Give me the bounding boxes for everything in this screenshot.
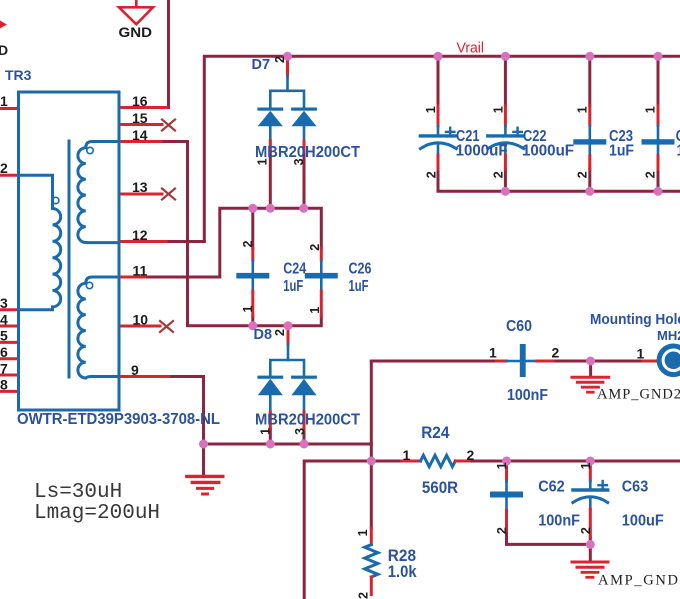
pin TR3-15 [119,123,162,126]
wire pin14 net [161,142,321,326]
capacitor C25 partial right edge [642,106,675,169]
pin TR3-16 [119,106,167,109]
no-connect X pin13 [162,189,175,200]
svg-text:12: 12 [132,227,148,243]
GND power symbol top [119,0,153,24]
svg-text:2: 2 [576,171,590,178]
svg-text:3: 3 [293,428,307,435]
pin TR3-5 [0,341,19,344]
svg-text:11: 11 [133,263,148,279]
svg-text:2: 2 [644,171,658,178]
wire C24 vertical maroon bottom [251,316,254,326]
svg-text:2: 2 [467,447,475,463]
svg-text:1: 1 [0,93,8,109]
svg-text:TR3: TR3 [5,67,32,83]
svg-text:1: 1 [308,307,322,314]
diode D8 dual common cathode [257,344,317,429]
junction D7 anode 3 top rail [299,204,308,213]
wire pin16 to top edge [167,0,170,108]
wire C21 vertical maroon [437,56,440,106]
svg-text:6: 6 [0,344,8,360]
svg-text:8: 8 [0,377,8,393]
capacitor C62 [490,461,523,531]
svg-text:1: 1 [403,447,411,463]
no-connect X pin10 [160,321,173,332]
wire D7 anode right drop [303,152,306,209]
svg-text:2: 2 [273,329,287,336]
junction C22 bottom rail [501,187,510,196]
pin TR3-12 [119,240,166,243]
svg-text:1: 1 [579,462,593,469]
svg-text:C63: C63 [622,479,648,496]
wire C25 vertical maroon [657,56,660,106]
svg-text:2: 2 [424,171,438,178]
svg-text:1: 1 [259,428,273,435]
diode D7 dual common cathode [257,60,317,152]
wire pin12 to Vrail riser [166,240,204,243]
capacitor C24 [236,248,269,316]
wire pin11 to C24 top rail [145,208,321,277]
svg-text:GND: GND [119,24,153,40]
wire cap bank bottom rail [438,169,680,191]
wire R28 upper [370,461,373,528]
wire C63 bottom stub [589,537,592,560]
svg-text:C60: C60 [506,318,532,335]
junction D8 anode 1 ground rail [266,440,275,449]
junction AMP_GND2 tap [586,357,595,366]
junction C24 bottom rail [248,321,257,330]
wire D8 anode left drop [269,429,272,444]
svg-text:Ls=30uH: Ls=30uH [34,481,122,504]
svg-text:2: 2 [552,345,560,361]
svg-text:2: 2 [273,56,287,63]
wire C22 bottom maroon [504,169,507,191]
svg-text:1uF: 1uF [609,143,634,160]
no-connect X pin15 [162,120,175,131]
wire Vrail horizontal rail [204,56,680,241]
wire C60 to MH dot [553,360,643,363]
svg-text:10: 10 [133,312,149,328]
transformer core line [68,141,71,377]
transformer secondary 1 polarity dot [87,147,93,153]
svg-text:1uF: 1uF [349,278,369,295]
svg-text:MBR20H200CT: MBR20H200CT [255,144,360,161]
junction C25 bottom rail [654,187,663,196]
junction R28 tap [367,457,376,466]
capacitor C22 polarized [488,106,524,169]
wire R24 to C62 [469,460,680,463]
svg-text:2: 2 [495,527,509,534]
svg-text:5: 5 [0,328,8,344]
svg-text:1uF: 1uF [677,143,680,160]
svg-text:MH2: MH2 [657,328,680,343]
junction C23 bottom rail [585,187,594,196]
svg-text:1: 1 [241,306,255,313]
capacitor C23 [573,106,606,169]
svg-text:D8: D8 [254,327,273,343]
capacitor C63 polarized [573,461,608,537]
capacitor C26 [305,248,338,316]
svg-text:Mounting Hole: Mounting Hole [590,312,680,328]
wire C22 vertical maroon [504,56,507,106]
transformer secondary 2 winding [78,277,119,378]
junction C63 top [586,457,595,466]
junction D7 anode 1 top rail [266,204,275,213]
svg-text:1: 1 [637,345,645,361]
svg-text:2: 2 [357,592,371,599]
junction C22 on Vrail [501,52,510,61]
ground symbol below D8 [187,476,223,494]
wire pin9 to ground rail [169,377,371,462]
svg-text:16: 16 [132,93,148,109]
svg-text:Lmag=200uH: Lmag=200uH [34,502,160,525]
pin TR3-6 [0,357,19,360]
ground symbol AMP_GND [572,562,608,577]
svg-text:1: 1 [576,106,590,113]
svg-text:2: 2 [492,171,506,178]
svg-text:2: 2 [0,160,8,176]
svg-text:OWTR-ETD39P3903-3708-NL: OWTR-ETD39P3903-3708-NL [17,411,220,428]
transformer secondary 2 polarity dot [86,282,92,288]
svg-text:9: 9 [131,362,139,378]
junction C24 top rail [248,204,257,213]
pin TR3-2 [0,174,19,177]
svg-text:1: 1 [495,462,509,469]
svg-text:1: 1 [492,106,506,113]
transformer TR3 body [19,92,120,410]
mounting hole MH pad [643,346,680,375]
pin TR3-10 [119,325,160,328]
wire D8 center stub red [287,326,290,344]
wire C23 vertical maroon [588,56,591,106]
wire ground drop below rail [202,444,205,475]
svg-text:MBR20H200CT: MBR20H200CT [255,412,360,429]
pin TR3-14 [119,140,161,143]
ground symbol AMP_GND2 [572,377,609,392]
junction ground rail left [199,440,208,449]
svg-text:C26: C26 [349,261,372,278]
pin TR3-7 [0,374,19,377]
svg-text:2: 2 [308,244,322,251]
svg-text:1.0k: 1.0k [388,563,418,581]
transformer primary polarity dot [53,197,59,203]
svg-text:1: 1 [356,529,370,536]
svg-text:13: 13 [132,179,148,195]
svg-text:1000uF: 1000uF [522,143,574,160]
wire AMP_GND2 drop [589,361,592,376]
svg-text:100uF: 100uF [622,512,664,529]
svg-text:2: 2 [579,527,593,534]
capacitor C60 series horizontal [497,344,554,377]
wire C25 bottom maroon [657,169,660,191]
wire D7 anode left drop [269,152,272,209]
junction C23 on Vrail [585,52,594,61]
svg-text:D7: D7 [252,57,271,73]
junction D8 cathode tap bottom rail [284,321,293,330]
junction D8 anode 3 ground rail [300,440,309,449]
wire mounting hole net [371,360,496,363]
svg-text:100nF: 100nF [507,387,548,404]
transformer secondary 1 winding [78,142,119,243]
wire riser to mounting-hole row [370,361,373,444]
svg-text:1000uF: 1000uF [456,143,508,160]
pin TR3-13 [119,193,162,196]
svg-text:100nF: 100nF [538,512,580,529]
pin TR3-4 [0,325,19,328]
junction D7 cathode tap on Vrail [283,52,292,61]
pin TR3-1 [0,107,19,110]
wire D8 anode right drop [303,429,306,444]
pin TR3-3 [0,308,19,311]
svg-text:560R: 560R [422,479,458,497]
junction C63 bottom [586,540,595,549]
transformer primary winding [19,175,61,309]
svg-text:1: 1 [644,106,658,113]
resistor R28 [365,528,378,594]
svg-text:7: 7 [0,361,8,377]
power arrow fragment top-left [0,21,7,29]
wire C62 bottom to C63 bottom [507,531,591,544]
resistor R24 [402,455,469,466]
svg-text:3: 3 [0,295,8,311]
svg-text:Vrail: Vrail [457,40,485,56]
svg-text:1: 1 [489,345,497,361]
svg-text:R24: R24 [421,423,450,442]
svg-text:C24: C24 [283,261,306,278]
svg-text:4: 4 [0,312,8,328]
wire C23 bottom maroon [588,169,591,191]
svg-text:1uF: 1uF [283,278,303,295]
pin TR3-8 [0,390,19,393]
junction C25 on Vrail [654,52,663,61]
svg-text:D: D [0,42,8,58]
svg-text:AMP_GND2: AMP_GND2 [597,387,680,403]
junction C21 on Vrail [434,52,443,61]
svg-text:1: 1 [424,106,438,113]
wire C24 vertical maroon top [251,208,254,248]
wire R24 row left [304,461,402,599]
svg-text:C62: C62 [538,479,565,496]
junction C62 top [502,457,511,466]
pin TR3-9 [119,375,169,378]
capacitor C21 polarized [420,106,456,169]
svg-text:2: 2 [241,241,255,248]
svg-text:14: 14 [132,127,148,143]
svg-text:15: 15 [132,110,148,126]
pin TR3-11 [119,276,145,279]
